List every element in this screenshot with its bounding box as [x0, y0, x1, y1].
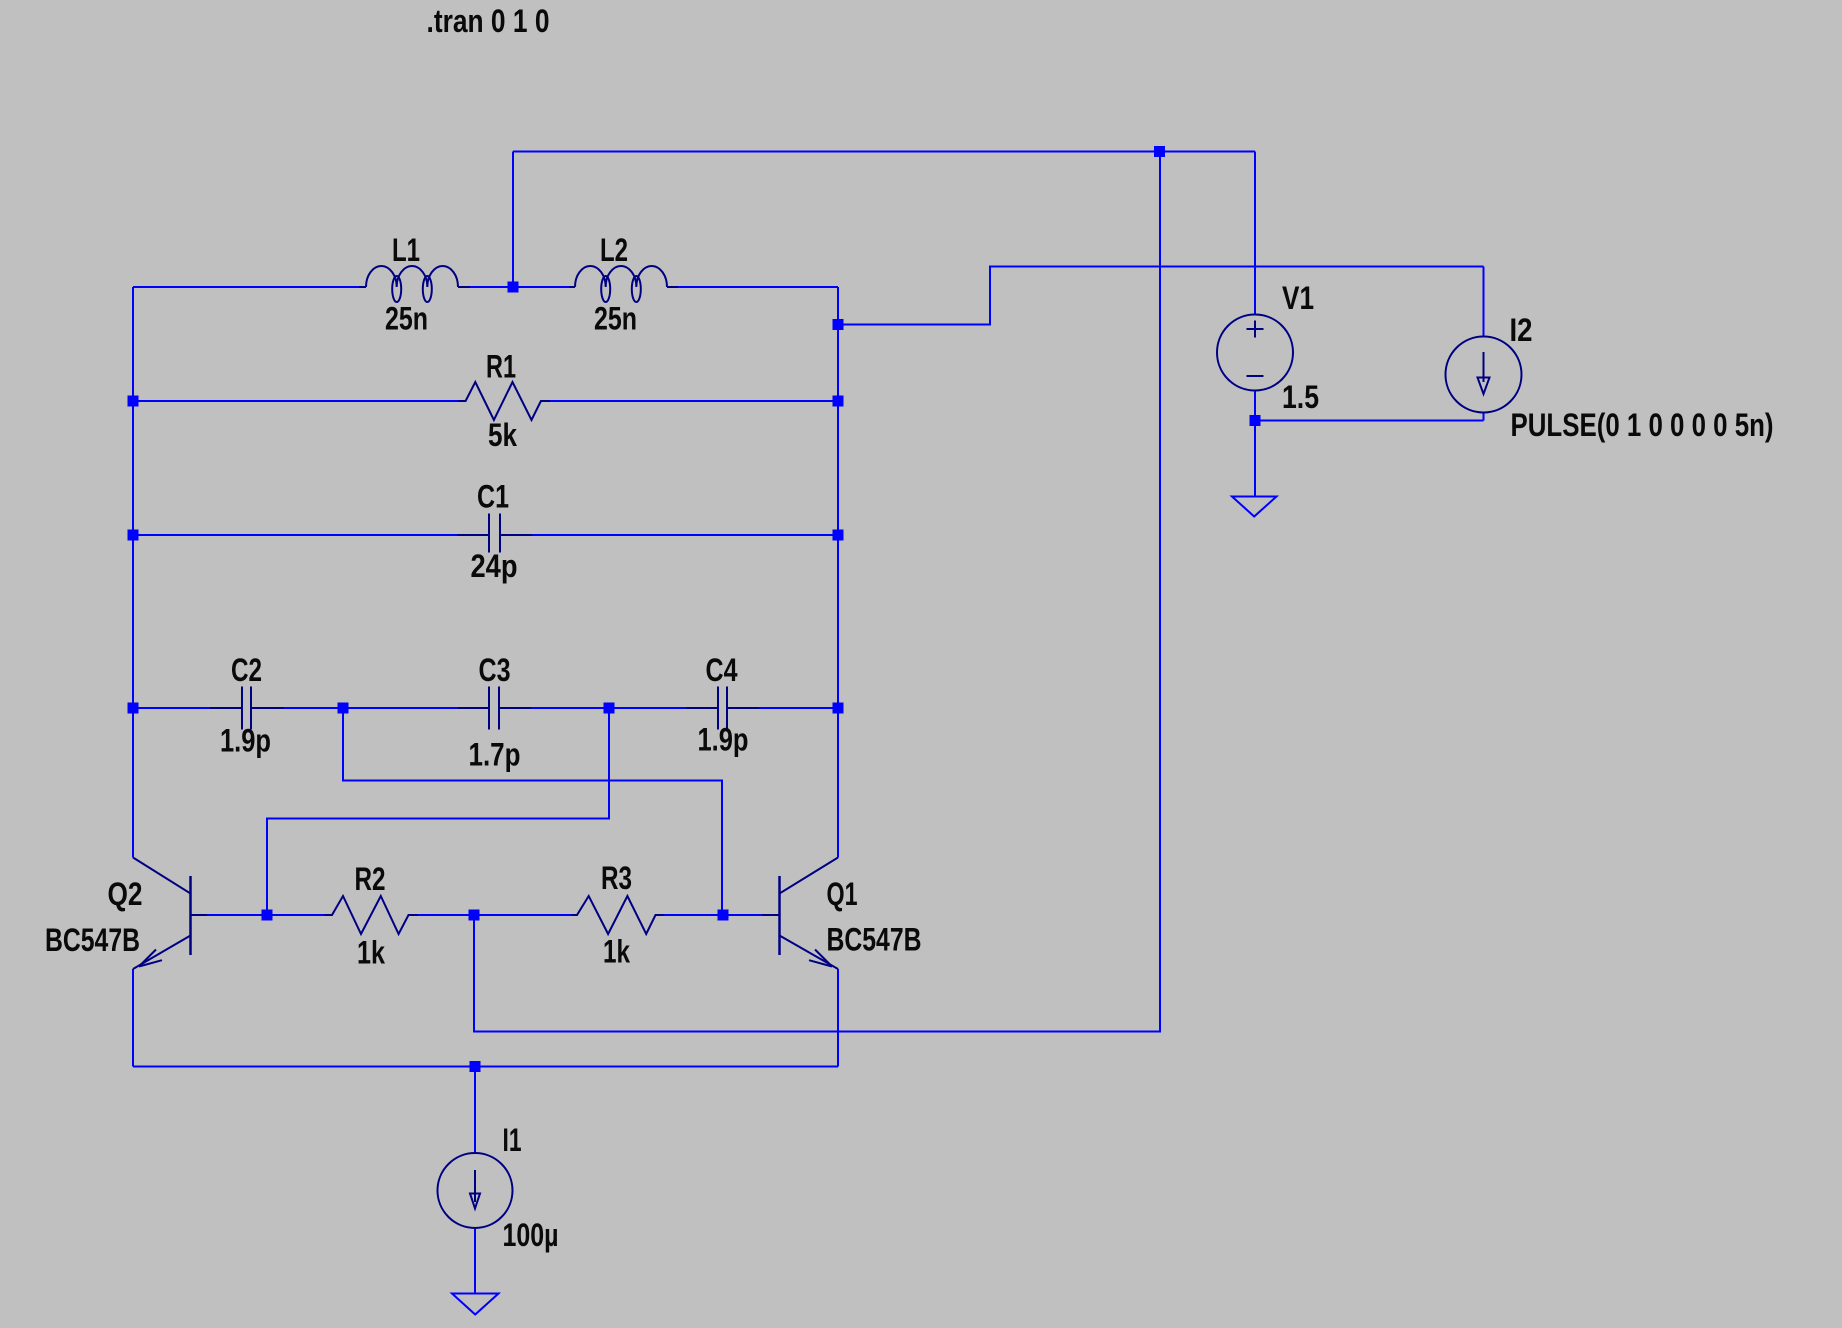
svg-text:25n: 25n	[594, 301, 637, 337]
svg-text:Q2: Q2	[108, 876, 143, 912]
svg-text:R1: R1	[486, 349, 516, 385]
svg-text:1.7p: 1.7p	[469, 737, 521, 773]
svg-text:100µ: 100µ	[503, 1217, 559, 1253]
svg-text:5k: 5k	[488, 417, 517, 453]
svg-text:R2: R2	[355, 861, 386, 897]
svg-text:Q1: Q1	[827, 876, 858, 912]
svg-text:25n: 25n	[385, 301, 428, 337]
svg-text:R3: R3	[601, 860, 632, 896]
svg-text:BC547B: BC547B	[827, 922, 922, 958]
svg-text:.tran 0 1 0: .tran 0 1 0	[427, 3, 550, 39]
svg-text:1.9p: 1.9p	[220, 723, 271, 759]
svg-text:C1: C1	[477, 479, 509, 515]
svg-text:I1: I1	[503, 1122, 522, 1158]
svg-text:C4: C4	[706, 652, 738, 688]
svg-text:C3: C3	[479, 652, 511, 688]
svg-text:V1: V1	[1282, 280, 1314, 316]
svg-text:1k: 1k	[357, 935, 385, 971]
svg-text:L2: L2	[600, 232, 628, 268]
svg-text:L1: L1	[392, 232, 420, 268]
svg-text:BC547B: BC547B	[45, 922, 140, 958]
svg-text:1.9p: 1.9p	[698, 722, 749, 758]
svg-text:1.5: 1.5	[1282, 379, 1319, 415]
svg-text:PULSE(0 1 0 0 0 0 5n): PULSE(0 1 0 0 0 0 5n)	[1511, 407, 1774, 443]
svg-text:1k: 1k	[603, 934, 630, 970]
svg-text:24p: 24p	[471, 548, 518, 584]
svg-text:C2: C2	[231, 652, 262, 688]
svg-text:I2: I2	[1510, 312, 1533, 348]
